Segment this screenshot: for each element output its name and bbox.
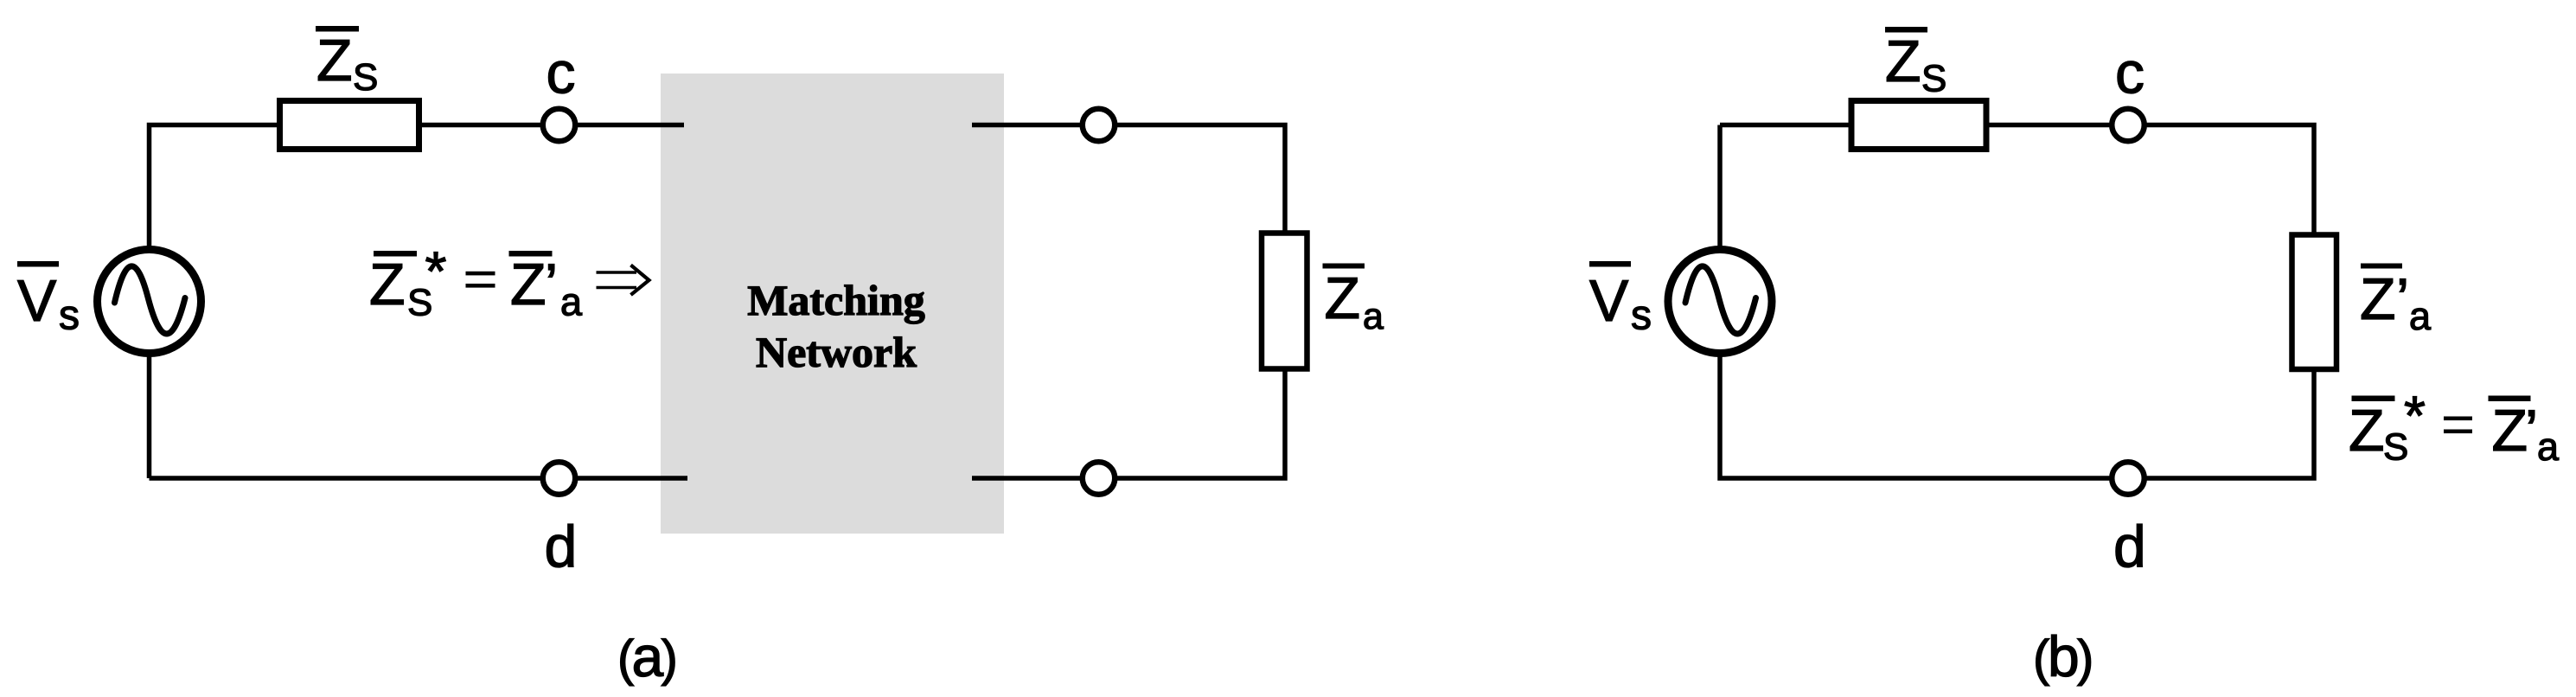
svg-text:b: b [2048, 624, 2080, 688]
svg-text:c: c [2115, 41, 2145, 106]
svg-text:Z: Z [2360, 266, 2396, 332]
svg-text:V: V [17, 268, 57, 334]
svg-text:a: a [2537, 425, 2560, 469]
svg-text:a: a [2409, 294, 2432, 338]
svg-text:’: ’ [2525, 398, 2538, 464]
svg-text:a: a [632, 624, 664, 688]
svg-text:V: V [1589, 268, 1629, 334]
svg-text:’: ’ [545, 252, 558, 317]
svg-text:S: S [353, 56, 378, 99]
svg-text:’: ’ [2396, 266, 2409, 332]
svg-text:a: a [1363, 296, 1384, 337]
svg-text:d: d [2113, 514, 2146, 579]
svg-text:Network: Network [756, 328, 917, 376]
svg-text:): ) [662, 630, 678, 687]
svg-text:*: * [2404, 385, 2426, 447]
svg-text:Z: Z [2349, 398, 2385, 464]
svg-text:d: d [545, 514, 578, 579]
svg-text:s: s [1631, 293, 1652, 339]
svg-text:a: a [560, 280, 583, 324]
svg-text:): ) [2077, 630, 2093, 687]
svg-text:s: s [59, 293, 80, 339]
svg-text:Z: Z [2492, 398, 2528, 464]
svg-text:*: * [425, 240, 447, 303]
svg-text:c: c [547, 41, 576, 106]
svg-text:Matching: Matching [747, 276, 925, 324]
svg-text:Z: Z [510, 252, 547, 317]
svg-text:Z: Z [1325, 265, 1361, 331]
svg-text:Z: Z [316, 28, 353, 93]
svg-text:Z: Z [369, 252, 406, 317]
svg-text:Z: Z [1885, 29, 1921, 94]
svg-text:S: S [1921, 58, 1946, 100]
